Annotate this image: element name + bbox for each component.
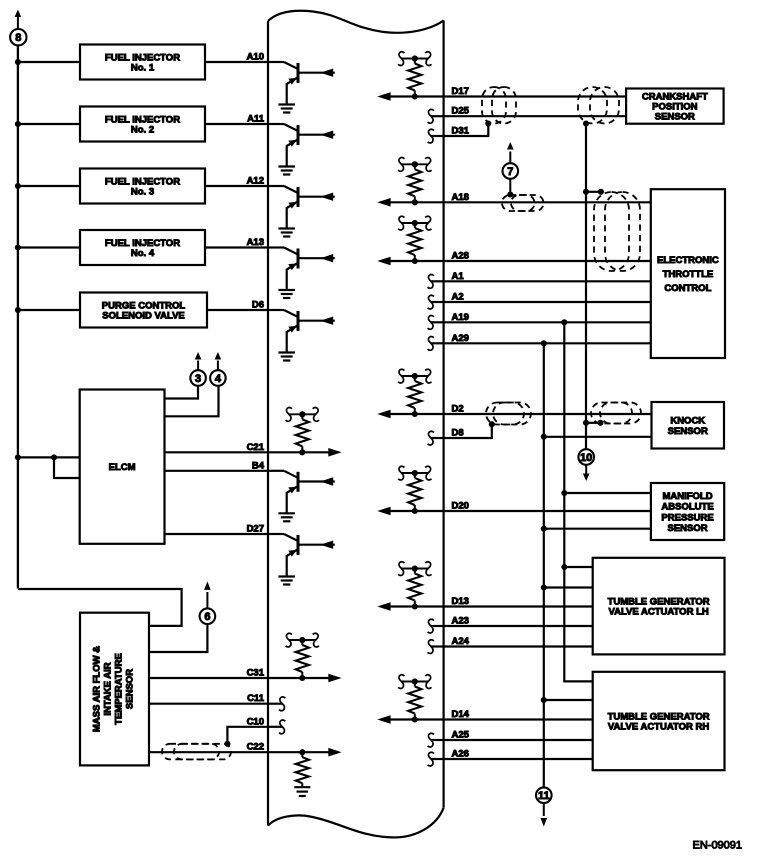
svg-text:D31: D31 [452,126,470,137]
svg-text:A10: A10 [247,52,264,63]
svg-text:A18: A18 [452,192,469,203]
svg-text:D14: D14 [452,709,470,720]
svg-text:SOLENOID VALVE: SOLENOID VALVE [102,310,185,321]
svg-text:VALVE ACTUATOR RH: VALVE ACTUATOR RH [608,721,709,732]
svg-text:10: 10 [580,452,592,464]
svg-text:B4: B4 [252,460,265,471]
svg-text:A25: A25 [452,730,470,741]
svg-text:A26: A26 [452,749,469,760]
svg-text:6: 6 [204,611,210,623]
svg-text:MASS AIR FLOW &: MASS AIR FLOW & [92,646,103,732]
svg-text:MANIFOLD: MANIFOLD [662,491,712,502]
svg-text:A28: A28 [452,251,469,262]
svg-text:D6: D6 [252,300,264,311]
svg-text:D13: D13 [452,596,469,607]
svg-text:SENSOR: SENSOR [668,426,708,437]
svg-text:C11: C11 [247,693,265,704]
svg-text:No. 2: No. 2 [131,124,154,135]
svg-text:A1: A1 [452,271,465,282]
svg-text:D17: D17 [452,86,469,97]
svg-text:ABSOLUTE: ABSOLUTE [661,502,713,513]
svg-text:D20: D20 [452,501,469,512]
svg-text:VALVE ACTUATOR LH: VALVE ACTUATOR LH [608,607,708,618]
svg-text:TEMPERATURE: TEMPERATURE [114,653,125,725]
svg-text:C31: C31 [247,668,265,679]
svg-text:A24: A24 [452,636,470,647]
svg-text:C21: C21 [247,442,265,453]
svg-text:D2: D2 [452,404,464,415]
svg-text:No. 4: No. 4 [131,248,155,259]
svg-text:8: 8 [15,32,21,44]
svg-text:A11: A11 [247,114,265,125]
svg-text:C22: C22 [247,742,264,753]
svg-text:A2: A2 [452,292,464,303]
svg-text:PRESSURE: PRESSURE [661,512,713,523]
svg-text:7: 7 [507,166,513,178]
svg-text:EN-09091: EN-09091 [693,840,743,852]
svg-text:4: 4 [215,373,222,385]
svg-text:3: 3 [195,373,201,385]
svg-text:D27: D27 [247,524,264,535]
svg-text:A23: A23 [452,616,469,627]
svg-text:No. 3: No. 3 [131,186,154,197]
svg-text:A29: A29 [452,333,469,344]
svg-text:INTAKE AIR: INTAKE AIR [103,662,114,715]
svg-text:ELECTRONIC: ELECTRONIC [657,255,719,266]
svg-text:SENSOR: SENSOR [667,523,707,534]
svg-text:No. 1: No. 1 [131,62,155,73]
svg-text:SENSOR: SENSOR [125,669,136,709]
svg-text:CONTROL: CONTROL [664,283,711,294]
svg-text:A19: A19 [452,312,469,323]
svg-text:ELCM: ELCM [109,462,136,473]
svg-text:D25: D25 [452,106,470,117]
svg-text:SENSOR: SENSOR [655,111,695,122]
svg-text:11: 11 [538,790,550,802]
svg-text:THROTTLE: THROTTLE [663,269,714,280]
svg-text:D8: D8 [452,428,464,439]
svg-text:A12: A12 [247,176,264,187]
svg-text:A13: A13 [247,237,264,248]
svg-text:C10: C10 [247,716,264,727]
svg-text:KNOCK: KNOCK [670,415,705,426]
